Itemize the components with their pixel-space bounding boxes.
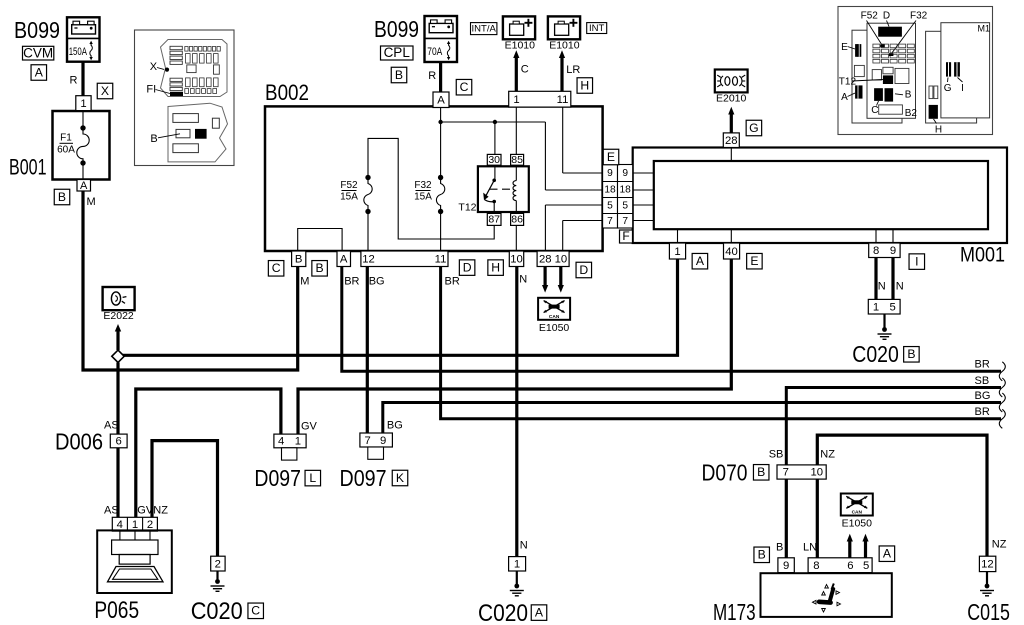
svg-text:I: I (915, 254, 918, 268)
svg-text:9: 9 (380, 435, 386, 447)
svg-text:INT/A: INT/A (472, 24, 497, 35)
svg-text:11: 11 (557, 94, 569, 106)
svg-text:LN: LN (803, 542, 817, 554)
svg-text:5: 5 (863, 560, 869, 572)
svg-text:C015: C015 (967, 599, 1010, 625)
svg-text:N: N (519, 274, 527, 286)
svg-text:18: 18 (620, 185, 632, 196)
svg-text:8: 8 (813, 560, 819, 572)
svg-text:85: 85 (511, 154, 523, 166)
svg-text:D: D (579, 263, 588, 277)
svg-text:E1010: E1010 (505, 40, 536, 52)
svg-text:G: G (749, 121, 758, 135)
svg-text:CVM: CVM (23, 45, 53, 60)
svg-text:9: 9 (607, 168, 613, 179)
svg-text:M: M (300, 276, 309, 288)
svg-text:N: N (520, 540, 528, 552)
svg-text:H: H (935, 125, 942, 136)
svg-text:B: B (776, 542, 783, 554)
svg-text:4: 4 (117, 519, 123, 531)
svg-text:F1: F1 (60, 133, 72, 144)
svg-text:6: 6 (116, 436, 122, 448)
svg-text:E1050: E1050 (539, 322, 570, 334)
svg-text:4: 4 (278, 436, 284, 448)
svg-text:A: A (437, 94, 445, 106)
svg-text:H: H (580, 78, 589, 92)
svg-text:E2022: E2022 (103, 310, 134, 322)
svg-text:28: 28 (539, 253, 552, 265)
svg-text:B: B (295, 253, 303, 265)
svg-text:C: C (460, 80, 469, 94)
svg-text:7: 7 (607, 216, 613, 227)
svg-text:12: 12 (362, 253, 375, 265)
svg-text:1: 1 (80, 98, 86, 110)
svg-text:B001: B001 (9, 155, 47, 180)
svg-text:1: 1 (513, 94, 519, 106)
svg-text:18: 18 (604, 185, 616, 196)
svg-text:R: R (70, 75, 78, 87)
svg-text:I: I (961, 83, 964, 94)
svg-text:D: D (463, 260, 472, 274)
svg-text:E1050: E1050 (842, 518, 873, 530)
svg-text:B2: B2 (905, 108, 918, 119)
svg-text:7: 7 (622, 216, 628, 227)
svg-text:B099: B099 (14, 17, 60, 43)
svg-text:60A: 60A (57, 145, 75, 156)
svg-text:A: A (883, 546, 892, 560)
svg-text:R: R (428, 70, 436, 82)
svg-text:X: X (101, 84, 109, 98)
svg-text:15A: 15A (340, 192, 358, 203)
svg-text:9: 9 (890, 245, 896, 257)
svg-text:GV: GV (301, 421, 318, 433)
svg-text:D: D (883, 11, 890, 22)
svg-text:15A: 15A (414, 192, 432, 203)
svg-text:NZ: NZ (153, 505, 168, 517)
svg-text:87: 87 (488, 214, 500, 226)
svg-text:B: B (907, 347, 915, 361)
svg-text:BR: BR (344, 276, 359, 288)
svg-text:B: B (58, 190, 66, 204)
svg-text:INT: INT (589, 23, 605, 34)
svg-text:C020: C020 (191, 598, 243, 625)
svg-text:A: A (841, 92, 848, 103)
svg-text:D006: D006 (55, 429, 103, 455)
svg-text:BR: BR (975, 359, 990, 371)
svg-text:1: 1 (514, 559, 520, 571)
svg-text:T12: T12 (458, 202, 476, 214)
svg-text:BR: BR (975, 406, 990, 418)
svg-text:F32: F32 (910, 11, 928, 22)
svg-text:B: B (757, 465, 765, 479)
svg-text:D097: D097 (340, 465, 387, 491)
svg-text:E: E (607, 150, 615, 164)
svg-text:CAN: CAN (549, 314, 560, 320)
svg-text:C: C (871, 105, 878, 116)
svg-text:40: 40 (725, 246, 738, 258)
svg-text:B002: B002 (265, 80, 309, 105)
svg-text:CAN: CAN (852, 510, 863, 516)
svg-text:E: E (841, 42, 848, 53)
svg-text:10: 10 (811, 467, 824, 479)
svg-text:1: 1 (132, 519, 138, 531)
svg-text:B: B (395, 68, 403, 82)
svg-text:1: 1 (873, 301, 879, 313)
svg-text:70A: 70A (427, 46, 443, 58)
svg-text:A: A (35, 65, 44, 79)
svg-text:E: E (750, 254, 758, 268)
svg-text:11: 11 (435, 253, 447, 265)
svg-text:86: 86 (511, 214, 523, 226)
svg-text:1: 1 (674, 246, 680, 258)
svg-text:G: G (944, 83, 952, 94)
svg-text:N: N (896, 281, 904, 293)
svg-text:B099: B099 (374, 16, 419, 42)
svg-text:C020: C020 (852, 341, 899, 367)
svg-text:E1010: E1010 (549, 40, 580, 52)
svg-text:9: 9 (783, 560, 789, 572)
svg-text:B: B (316, 261, 324, 275)
svg-text:150A: 150A (69, 46, 88, 58)
svg-text:P065: P065 (94, 597, 139, 624)
svg-text:GV: GV (137, 505, 154, 517)
svg-text:F52: F52 (861, 11, 879, 22)
svg-text:FI: FI (146, 83, 156, 95)
svg-text:A: A (696, 254, 705, 268)
svg-text:2: 2 (215, 558, 221, 570)
svg-text:BR: BR (445, 276, 460, 288)
svg-text:B: B (758, 548, 766, 562)
svg-text:10: 10 (510, 253, 523, 265)
svg-text:D097: D097 (254, 465, 301, 491)
svg-text:D070: D070 (702, 460, 748, 486)
svg-text:7: 7 (364, 435, 370, 447)
svg-text:N: N (878, 281, 886, 293)
svg-text:L: L (309, 471, 316, 485)
svg-text:AS: AS (104, 420, 119, 432)
svg-text:E2010: E2010 (716, 92, 747, 104)
svg-text:C020: C020 (478, 600, 528, 625)
svg-text:M: M (87, 196, 96, 208)
svg-text:F32: F32 (414, 180, 432, 191)
svg-text:8: 8 (873, 245, 879, 257)
svg-text:C: C (251, 604, 260, 618)
svg-text:7: 7 (783, 467, 789, 479)
svg-text:C: C (272, 261, 281, 275)
svg-text:10: 10 (555, 253, 568, 265)
svg-text:K: K (396, 471, 404, 485)
svg-text:BG: BG (369, 276, 385, 288)
svg-text:T12: T12 (839, 77, 857, 88)
svg-text:SB: SB (975, 375, 990, 387)
svg-text:30: 30 (488, 154, 500, 166)
svg-text:6: 6 (847, 560, 853, 572)
svg-text:B: B (150, 133, 157, 145)
svg-text:B: B (905, 89, 912, 100)
svg-text:M173: M173 (713, 599, 756, 625)
svg-text:H: H (491, 260, 500, 274)
svg-text:C: C (521, 64, 529, 76)
svg-text:LR: LR (566, 64, 580, 76)
svg-text:SB: SB (769, 449, 784, 461)
svg-text:BG: BG (387, 420, 403, 432)
svg-text:5: 5 (889, 301, 895, 313)
svg-text:9: 9 (622, 168, 628, 179)
svg-text:28: 28 (725, 135, 738, 147)
svg-text:AS: AS (104, 505, 119, 517)
svg-text:M001: M001 (960, 244, 1005, 267)
svg-text:NZ: NZ (992, 539, 1007, 551)
svg-text:5: 5 (607, 201, 613, 212)
svg-text:A: A (535, 605, 544, 619)
svg-text:1: 1 (295, 436, 301, 448)
svg-text:F: F (622, 229, 629, 243)
svg-text:A: A (80, 180, 88, 192)
svg-text:X: X (150, 61, 158, 73)
svg-text:M1: M1 (978, 23, 991, 33)
svg-text:5: 5 (622, 201, 628, 212)
svg-text:12: 12 (981, 559, 994, 571)
svg-text:NZ: NZ (820, 449, 835, 461)
svg-text:BG: BG (975, 390, 991, 402)
svg-text:2: 2 (147, 519, 153, 531)
svg-text:A: A (340, 253, 348, 265)
svg-text:F52: F52 (340, 180, 358, 191)
svg-text:CPL: CPL (384, 45, 411, 60)
